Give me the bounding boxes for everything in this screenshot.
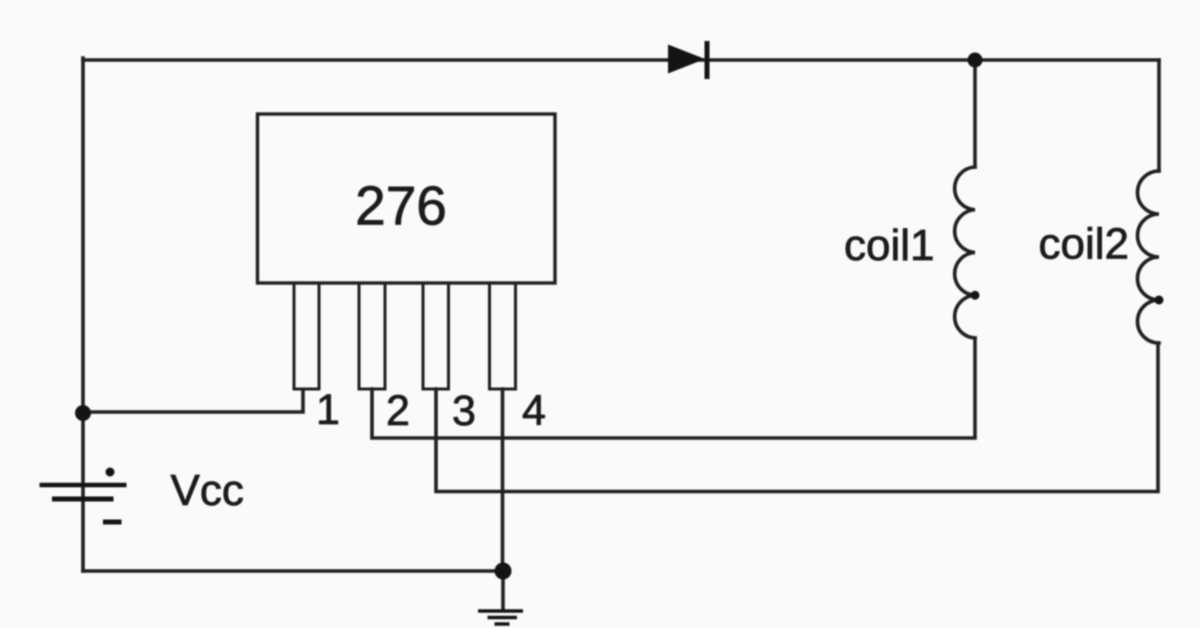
svg-text:Vcc: Vcc — [171, 466, 244, 515]
svg-text:1: 1 — [316, 386, 340, 434]
svg-text:2: 2 — [386, 387, 410, 435]
svg-text:3: 3 — [452, 387, 476, 435]
svg-text:4: 4 — [522, 387, 546, 435]
svg-text:276: 276 — [355, 175, 447, 237]
svg-text:coil2: coil2 — [1039, 220, 1130, 269]
svg-text:coil1: coil1 — [844, 221, 935, 270]
